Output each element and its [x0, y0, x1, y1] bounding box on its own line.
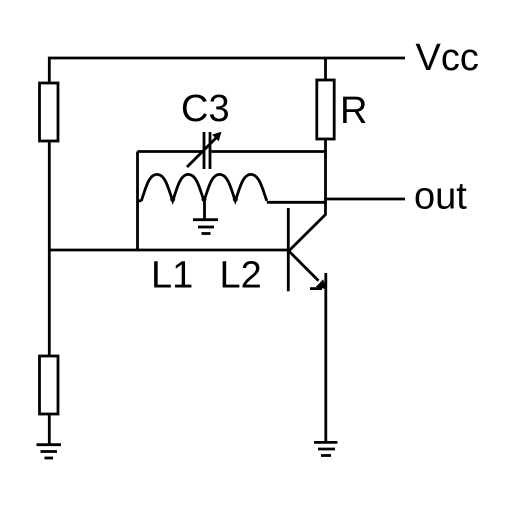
- wire tank top rail right: [211, 150, 326, 153]
- ground left: [37, 445, 62, 458]
- wire out line: [326, 198, 406, 201]
- wire Vcc rail: [48, 57, 405, 60]
- wire tank top rail left: [138, 150, 203, 153]
- resistor R_upper (left bias): [40, 83, 59, 141]
- svg-text:R: R: [340, 90, 367, 132]
- wire left vertical middle: [48, 141, 51, 357]
- wire coil right to collector node: [267, 201, 327, 204]
- wire coil centre tap: [203, 201, 206, 220]
- junction dot coil cusp 1: [170, 197, 175, 202]
- transistor Q1 emitter arrowhead: [316, 279, 327, 289]
- svg-text:C3: C3: [181, 88, 230, 130]
- wire R top: [324, 57, 327, 81]
- transistor Q1 emitter diagonal: [289, 252, 318, 281]
- wire base rail: [49, 249, 288, 252]
- capacitor C3 plate left: [203, 132, 206, 169]
- svg-text:L2: L2: [220, 255, 262, 297]
- ground coil tap: [193, 220, 218, 234]
- junction dot coil cusp 3: [233, 197, 238, 202]
- resistor R_lower (left bias): [40, 356, 59, 414]
- transistor Q1 base bar: [287, 208, 290, 291]
- wire tank left edge: [136, 152, 139, 251]
- junction dot coil cusp 2 (tap): [202, 197, 207, 202]
- capacitor C3 plate right: [209, 132, 212, 169]
- ground emitter: [314, 442, 338, 455]
- capacitor C3 variable arrow: [187, 132, 222, 167]
- wire left vertical top: [48, 57, 51, 84]
- wire coil left stub: [138, 199, 142, 202]
- inductor L1 L2 coil: [141, 174, 266, 200]
- resistor R: [317, 80, 334, 139]
- wire left vertical bottom: [48, 414, 51, 445]
- svg-text:L1: L1: [151, 255, 193, 297]
- wire R bottom / collector: [324, 139, 327, 215]
- svg-text:Vcc: Vcc: [416, 37, 479, 79]
- wire emitter vertical: [324, 273, 327, 442]
- transistor Q1 emitter tick: [310, 287, 322, 290]
- svg-text:out: out: [414, 176, 467, 218]
- transistor Q1 collector diagonal: [289, 214, 326, 251]
